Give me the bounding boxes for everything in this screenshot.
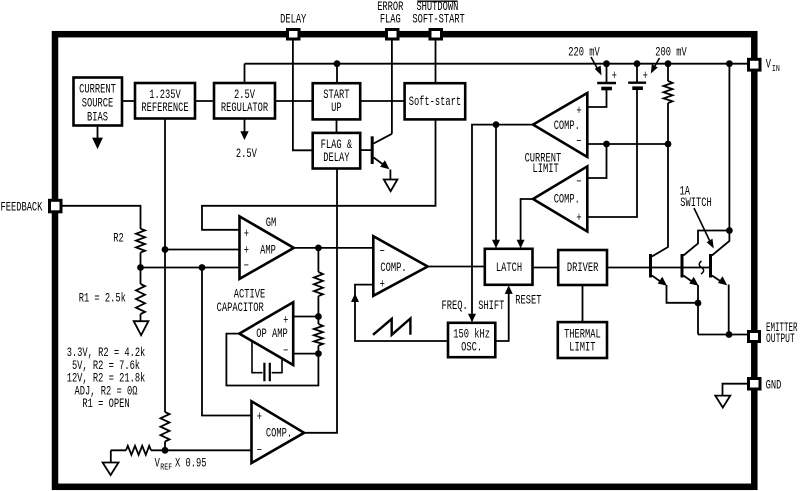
wire DRIVER to THERMAL LIMIT [582,285,584,322]
wire Q2 emitter run [697,285,699,335]
wire GM amp output to main comp minus [294,247,374,249]
resistor compensation Rb [314,324,323,346]
svg-text:−: − [576,135,581,149]
svg-text:SWITCH: SWITCH [680,197,711,211]
svg-text:LATCH: LATCH [496,262,522,276]
wire op amp minus input [293,353,318,355]
wire op amp plus input [293,316,318,318]
svg-text:R1 = 2.5k: R1 = 2.5k [79,292,126,306]
node switch collectors [726,227,733,234]
wire 200mV battery top lead [636,64,638,83]
pin SHUTDOWN/SOFT-START [430,30,442,40]
pin ERROR FLAG [387,30,399,40]
wire REG top to VIN rail [244,64,246,83]
wire FB node to GM amp minus input [141,267,240,269]
arrowhead freq shift into osc [468,314,476,323]
wire R1 bottom lead [140,314,142,321]
block DRIVER [558,250,607,285]
ground at VREF divider [103,463,119,476]
node op amp plus [315,313,322,320]
svg-text:150 kHz: 150 kHz [453,328,490,342]
wire R1 top lead [140,268,142,285]
wire SHUTDOWN pin to Soft-start [435,39,437,83]
svg-text:CAPACITOR: CAPACITOR [217,302,265,316]
pin VIN [749,59,761,70]
svg-text:COMP.: COMP. [554,120,580,134]
svg-text:CURRENT: CURRENT [79,83,116,97]
node GM out [315,245,322,252]
arrowhead CSB bias down [93,127,101,148]
wire main comp output to LATCH [428,266,485,268]
capacitor C1 (active capacitor internal) [252,341,282,381]
battery 220 mV [597,83,616,89]
wire Soft-start output to GM amp top input [202,119,436,229]
label arrow 1A SWITCH [694,208,714,249]
block THERMAL LIMIT [558,322,607,358]
svg-text:−: − [244,260,249,274]
wire VREF node line [111,449,252,451]
block START UP [313,83,361,119]
wire flag transistor base [360,149,372,151]
node emitter bus [726,331,733,338]
svg-text:UP: UP [331,102,341,116]
svg-text:X 0.95: X 0.95 [175,457,206,471]
svg-text:OSC.: OSC. [461,341,482,355]
node startup rail [334,60,341,67]
svg-text:+: + [244,228,249,242]
svg-text:REGULATOR: REGULATOR [221,102,269,116]
wire flag emitter drop [389,170,391,180]
node switch rail [726,60,733,67]
wire sense resistor top lead [667,64,669,81]
wire comp network middle leads [317,296,319,324]
node sense rail [665,60,672,67]
svg-text:+: + [380,278,385,292]
resistor R1 [136,284,145,314]
svg-text:+: + [244,244,249,258]
svg-text:FEEDBACK: FEEDBACK [1,201,43,215]
arrowhead Q1 emitter [658,277,667,286]
block FLAG & DELAY [313,133,361,169]
svg-text:SOFT-START: SOFT-START [412,13,465,27]
svg-text:OP AMP: OP AMP [256,328,287,342]
arrowhead reset into latch bottom [505,285,513,294]
wire VIN rail [245,63,749,65]
wire REF down to VREF resistor [164,119,166,413]
node FB branch [199,264,206,271]
wire top comp minus sense line [587,143,668,145]
resistor VREF (horizontal) [126,446,151,455]
wire REF tap to GM amp middle input [165,249,240,251]
svg-text:AMP: AMP [260,244,276,258]
arrowhead into latch from bottom comp [517,240,525,249]
wire DRIVER to output bases [607,267,709,269]
arrowhead flag emitter [380,160,389,169]
wire switch collector rail drop [728,64,730,231]
wire FB branch down to comparator plus [202,268,252,416]
base squiggle (multiple devices mark) [699,261,703,274]
svg-text:DELAY: DELAY [280,13,307,27]
svg-text:−: − [283,345,288,359]
svg-text:REFERENCE: REFERENCE [141,102,188,116]
oscillator sawtooth waveform [373,319,410,335]
arrowhead Q3 emitter [718,276,727,285]
svg-text:GND: GND [766,379,782,393]
comparator main COMP (PWM) [373,236,427,296]
arrowhead Q2 emitter [689,277,698,286]
wire top comp plus to 220mV battery [587,89,606,108]
svg-text:COMP.: COMP. [554,193,580,207]
wire GND pin lead [723,384,749,396]
wire Q1 emitter run [667,285,699,303]
wire 220mV battery top lead [606,64,608,83]
wire sense resistor bottom to Q1 collector [652,103,668,257]
wire REF to REG [195,100,214,102]
resistor R2 [136,229,145,253]
node op amp minus [315,350,322,357]
svg-text:FLAG &: FLAG & [321,139,353,153]
wire VREF resistor bottom to node [164,442,166,451]
svg-text:COMP.: COMP. [380,262,406,276]
wire flag collector [374,134,392,144]
label arrow 200 mV [651,58,660,74]
wire comp network bottom lead [226,334,318,386]
G_PARTS [239,93,587,463]
svg-text:R2: R2 [113,232,123,246]
wire comp minus tie [587,144,606,178]
svg-text:−: − [576,176,581,190]
svg-text:SOURCE: SOURCE [82,97,113,111]
wire current comp to latch drop [495,125,497,247]
resistor VREF divider (vertical) [161,412,170,442]
wire START UP to Soft-start [360,100,404,102]
block Soft-start [405,83,466,119]
transistor Q1 (switch) [651,254,665,284]
node comp minus tie [603,141,610,148]
svg-text:DRIVER: DRIVER [567,262,599,276]
svg-text:200 mV: 200 mV [655,46,687,60]
wire comp network top lead [317,248,319,272]
svg-text:LIMIT: LIMIT [569,341,596,355]
wire START UP to FLAG & DELAY [336,119,338,132]
svg-text:+: + [612,70,617,84]
wire LATCH to DRIVER [533,267,559,269]
node Q1Q2 emitters [695,300,702,307]
wire Q3 emitter run [728,285,730,335]
ground at GND pin [715,396,730,408]
pin EMITTER OUTPUT [749,332,760,342]
node current comp out [493,121,500,128]
svg-text:2.5V: 2.5V [236,148,257,162]
svg-text:BIAS: BIAS [87,111,108,125]
svg-text:DELAY: DELAY [323,152,350,166]
wire REG to START UP [275,100,313,102]
ground flag emitter [384,180,398,192]
wire CSB to REF [122,100,135,102]
wire VREF gnd drop [110,450,112,462]
svg-text:2.5V: 2.5V [234,89,255,103]
svg-text:START: START [323,89,350,103]
svg-text:FREQ.: FREQ. [442,300,468,314]
svg-text:GM: GM [266,217,276,231]
node sense bottom [665,141,672,148]
svg-text:R1 = OPEN: R1 = OPEN [82,398,129,412]
node VREF [162,447,169,454]
transistor Q2 (switch) [682,254,696,284]
svg-text:LIMIT: LIMIT [532,163,559,177]
svg-text:+: + [576,212,581,226]
svg-text:REF: REF [160,463,172,473]
resistor current sense [664,81,673,103]
svg-text:−: − [257,444,262,458]
svg-text:V: V [155,457,161,471]
pin FEEDBACK [50,200,62,212]
svg-text:FLAG: FLAG [380,13,401,27]
pin GND [749,379,761,390]
transistor Q3 (switch) [711,254,725,284]
wire OSC reset to LATCH [495,288,508,341]
block 2.5V REGULATOR [214,83,275,119]
block LATCH [485,249,533,285]
wire FEEDBACK pin to R2 [61,206,141,229]
svg-text:+: + [283,314,288,328]
svg-text:COMP.: COMP. [266,427,292,441]
svg-text:THERMAL: THERMAL [564,328,601,342]
wire DELAY pin down [293,39,313,150]
comparator current limit top COMP [533,93,587,157]
svg-text:IN: IN [772,64,780,74]
block 150 kHz OSC. [448,323,495,357]
svg-text:220 mV: 220 mV [568,46,600,60]
svg-text:SHIFT: SHIFT [478,300,505,314]
svg-text:+: + [257,411,262,425]
resistor compensation Ra [314,272,323,296]
wire Q2 collector [683,231,729,256]
arrowhead into latch from top comp [492,240,500,249]
block CURRENT SOURCE BIAS [74,78,123,126]
svg-text:Soft-start: Soft-start [409,96,461,110]
svg-text:+: + [643,70,648,84]
G_WIRES [61,39,749,463]
wire R2 bottom to FB node [140,253,142,268]
ground below R1 [134,321,149,335]
svg-text:ACTIVE: ACTIVE [234,288,265,302]
wire bottom current comp output [521,199,533,247]
op-amp OP AMP (active capacitor) [239,302,293,365]
wire low-FB comp output to FLAG & DELAY [304,169,337,433]
svg-text:1.235V: 1.235V [149,89,181,103]
wire ERROR FLAG pin down [391,39,393,134]
G_TOPBOXES [74,78,608,359]
node 200mV rail [634,60,641,67]
comparator current limit bottom COMP [533,166,587,231]
wire top current comp output [472,125,533,321]
wire bottom comp plus to 200mV battery [587,89,637,218]
node FB divider [137,264,144,271]
op-amp GM AMP [240,216,294,279]
wire emitter bus to pin [698,334,749,336]
svg-text:RESET: RESET [515,294,542,308]
label arrow 220 mV [591,57,602,76]
arrowhead sawtooth feedback up [351,294,359,303]
svg-text:−: − [380,245,385,259]
wire Q3 collector [712,231,730,256]
pin DELAY [288,30,300,40]
wire main comp plus feedback [355,285,448,341]
node REF tap [162,246,169,253]
arrowhead 2.5V output down [0,0,249,140]
svg-text:V: V [766,58,772,72]
comparator low-FB COMP [252,401,305,463]
node 220mV rail [603,60,610,67]
svg-text:OUTPUT: OUTPUT [766,332,795,346]
wire START UP top drop [336,64,338,83]
block 1.235V REFERENCE [135,83,195,119]
battery 200 mV [628,83,646,89]
svg-text:+: + [576,105,581,119]
transistor flag NPN [372,136,386,166]
